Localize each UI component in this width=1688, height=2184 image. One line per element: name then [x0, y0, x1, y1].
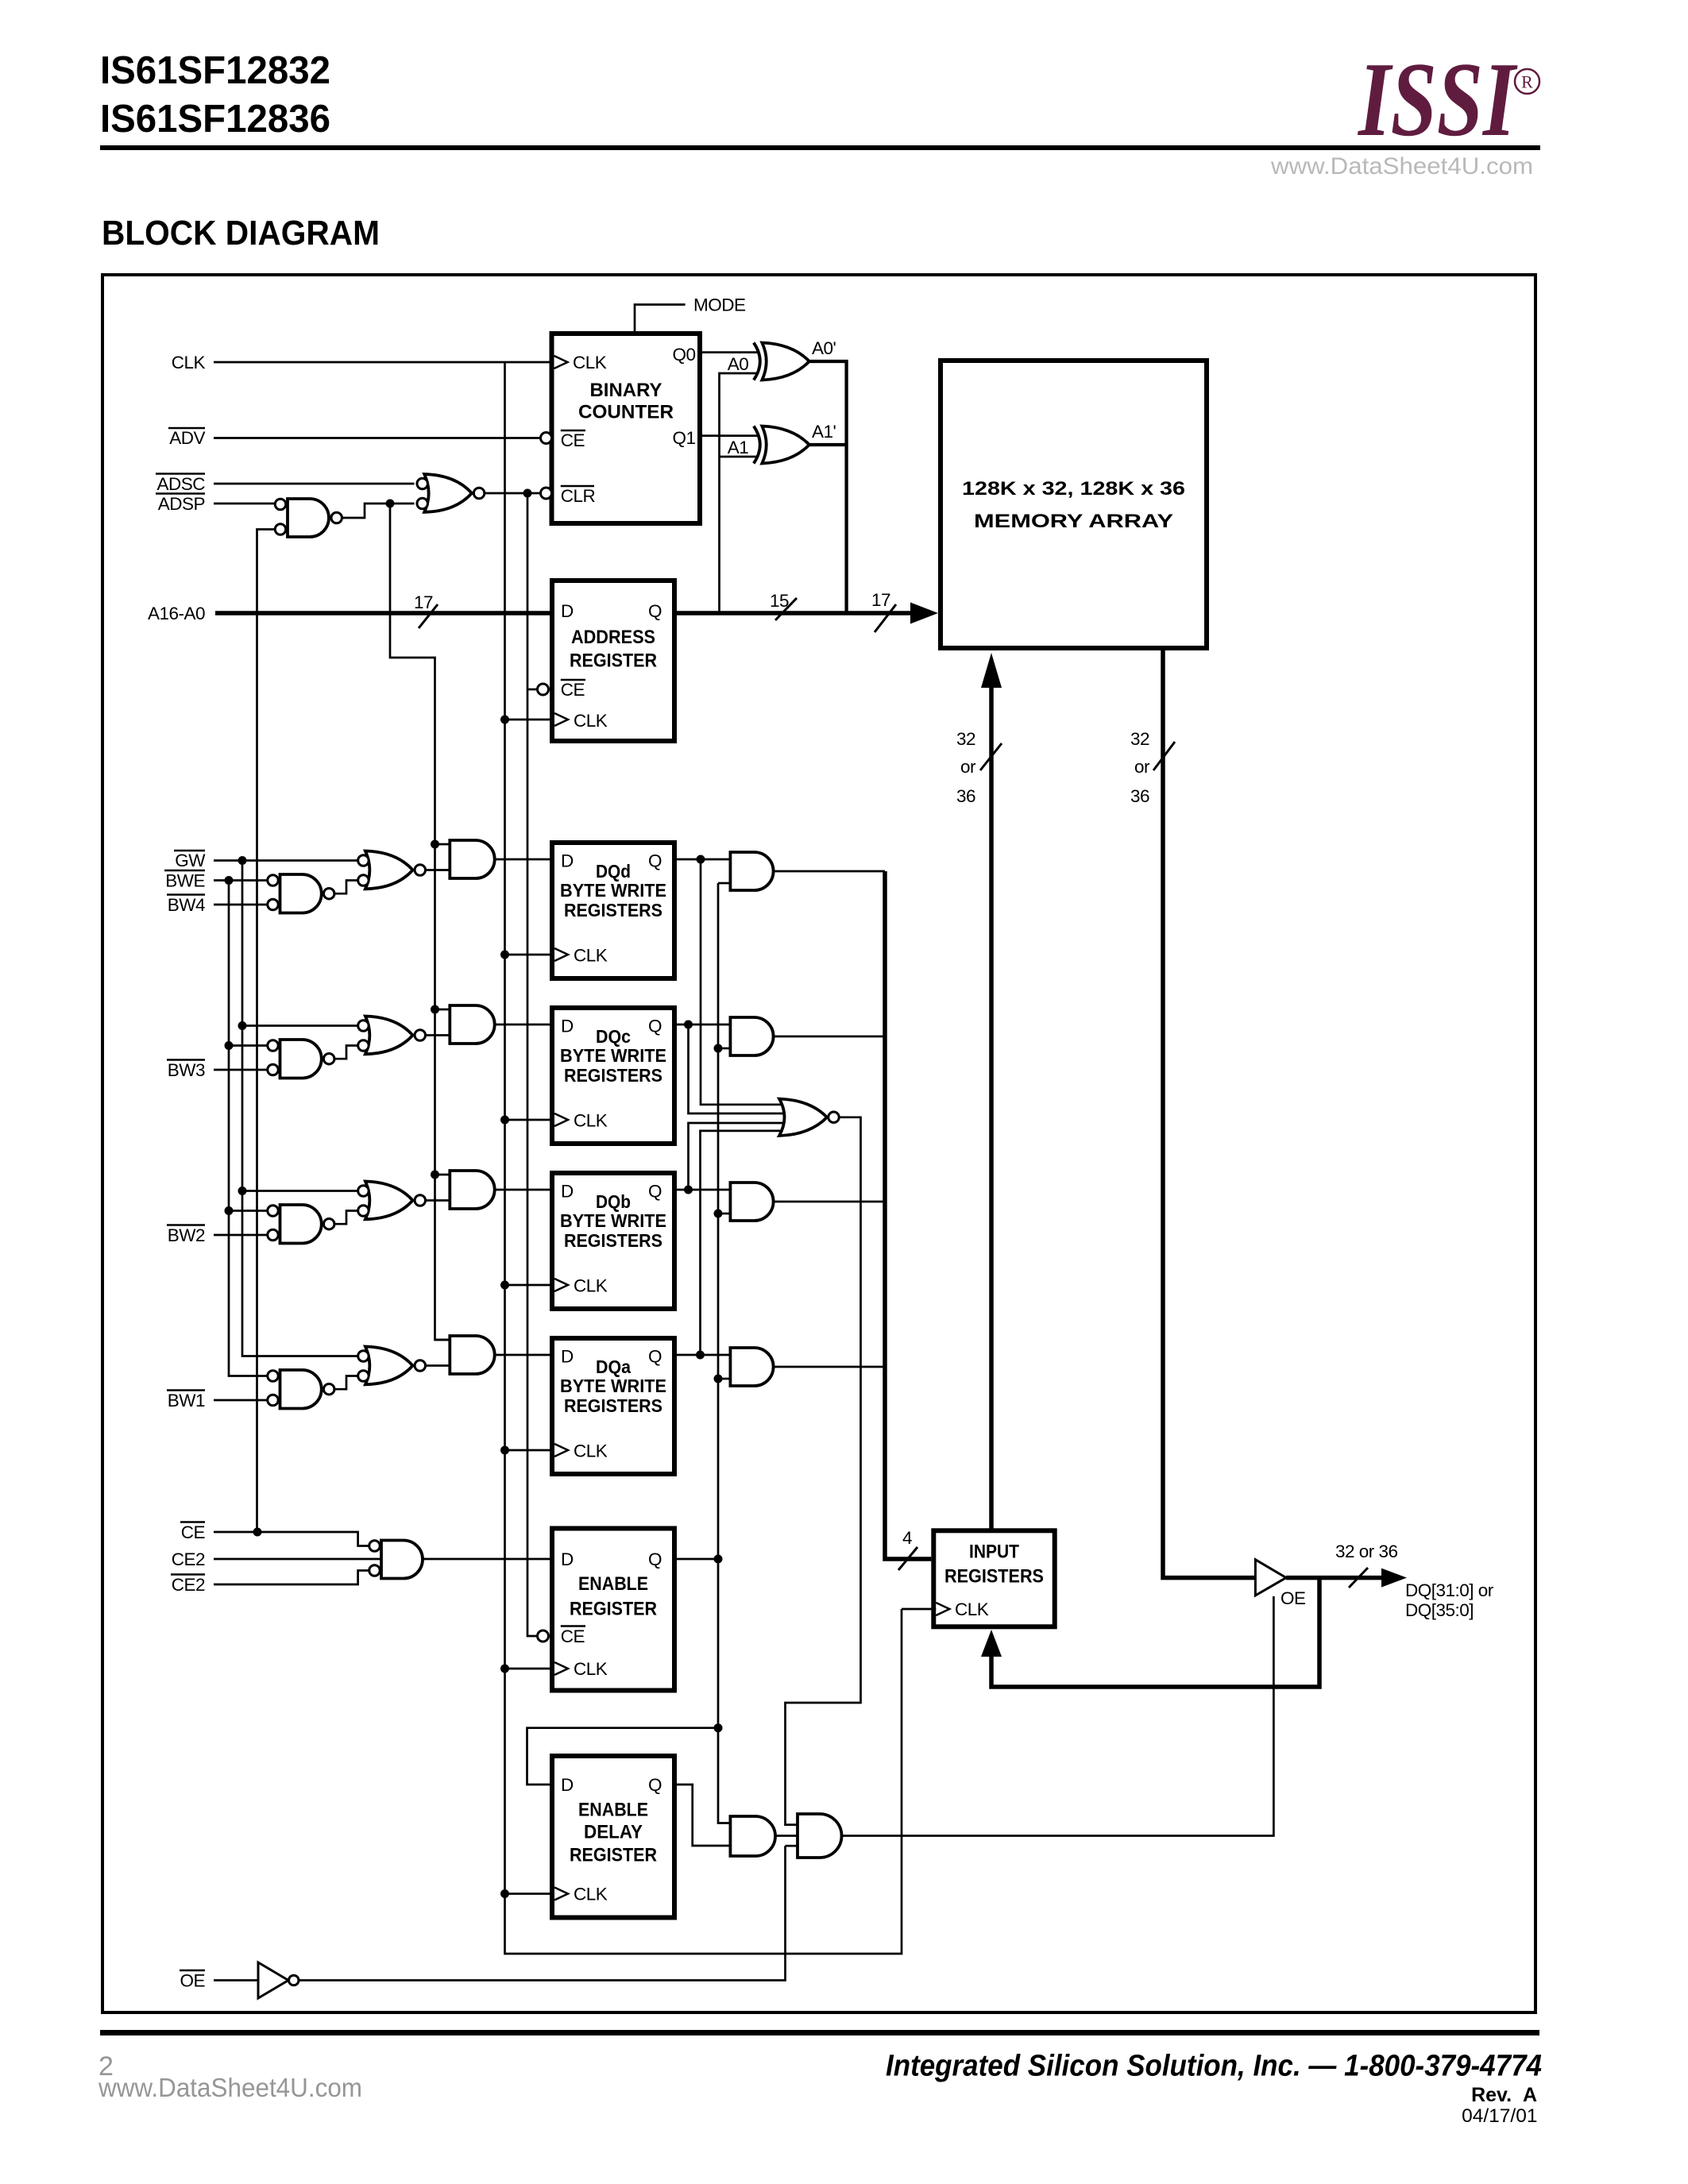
enable register box	[552, 1529, 674, 1691]
svg-text:Q: Q	[648, 1347, 662, 1367]
wire write-enable vertical (enable register Q)	[718, 883, 730, 1823]
input registers box	[933, 1530, 1054, 1626]
wire U6 output to enable register D	[423, 1558, 552, 1561]
wire ADSP to NAND gate	[214, 503, 275, 505]
junction CLK tap delay register	[500, 1889, 509, 1898]
nand gate (DQa byte write decode)	[268, 1370, 334, 1409]
junction DQd Q sense tap	[697, 855, 705, 864]
register box DQc BYTE WRITE REGISTERS	[552, 1008, 674, 1144]
wire GW	[214, 859, 358, 862]
wire NOR output to AND (DQc)	[426, 1034, 450, 1036]
and gate (DQd D input gating)	[450, 840, 494, 878]
wire CLK to DQa	[505, 1449, 555, 1452]
wire Q1 to XOR U4	[702, 434, 759, 437]
svg-text:or: or	[1134, 757, 1150, 777]
wire CE/CLR distribution vertical (to address & enable register CE)	[527, 493, 538, 1636]
svg-text:D: D	[561, 1549, 574, 1569]
svg-text:Q: Q	[648, 1775, 662, 1795]
wire delay register D feedback from enable Q	[527, 1728, 719, 1785]
wire BWE tap for DQc	[229, 1044, 275, 1047]
wire DQc Q output to output AND	[674, 1024, 730, 1026]
bus DQ writeback to input registers	[991, 1578, 1319, 1687]
arrowhead write data into memory	[981, 653, 1002, 688]
svg-text:CLK: CLK	[574, 1659, 608, 1679]
wire OE to inverter	[214, 1979, 258, 1981]
wire AND output to DQb register D	[495, 1189, 552, 1191]
svg-text:D: D	[561, 1017, 574, 1036]
output buffer (tri-state)	[1255, 1560, 1286, 1596]
enable register CLK pin	[554, 1662, 568, 1675]
svg-text:32 or 36: 32 or 36	[1335, 1542, 1398, 1561]
svg-text:CLK: CLK	[574, 1276, 608, 1296]
junction CLK tap enable register	[500, 1665, 509, 1673]
svg-text:CLK: CLK	[955, 1599, 989, 1619]
wire output AND to 4-bit write bus (DQb)	[774, 1201, 885, 1203]
svg-text:Q: Q	[648, 1549, 662, 1569]
node MODE input	[635, 305, 686, 332]
footer rule	[100, 2030, 1539, 2035]
svg-text:MEMORY ARRAY: MEMORY ARRAY	[974, 511, 1173, 532]
wire write-enable into output AND lower input (DQb)	[718, 1213, 730, 1215]
wire CLK to delay register	[505, 1893, 555, 1895]
wire CLK input to binary counter	[214, 361, 552, 364]
header rule	[100, 145, 1540, 150]
svg-text:GW: GW	[175, 851, 206, 870]
svg-text:CLK: CLK	[574, 711, 608, 731]
svg-text:IS61SF12832: IS61SF12832	[100, 49, 330, 92]
nor gate (DQc byte write combine)	[358, 1017, 426, 1055]
wire load-enable into AND upper input (DQd)	[435, 843, 450, 846]
svg-text:ADSP: ADSP	[158, 494, 205, 514]
wire OE inverted to U8	[299, 1846, 786, 1980]
wire load-enable into AND upper input (DQa)	[435, 1339, 450, 1341]
junction write-enable tap DQb	[714, 1210, 723, 1218]
svg-text:CLK: CLK	[172, 353, 206, 372]
address register CLK pin	[554, 713, 568, 726]
svg-text:D: D	[561, 1347, 574, 1367]
nor gate U5 (4-input write sense)	[779, 1099, 839, 1136]
svg-text:REGISTERS: REGISTERS	[564, 1230, 662, 1251]
bus 4-bit byte write enables to input registers	[885, 871, 931, 1559]
wire NAND output jog to NOR (DQa)	[334, 1376, 358, 1390]
wire BW1 to NAND	[214, 1399, 275, 1402]
svg-text:BYTE WRITE: BYTE WRITE	[560, 880, 666, 901]
and gate (DQb D input gating)	[450, 1171, 494, 1209]
svg-text:BW4: BW4	[168, 895, 205, 915]
svg-text:DQ[35:0]: DQ[35:0]	[1405, 1600, 1474, 1620]
junction CLK tap for address register	[500, 716, 509, 724]
registered trademark symbol	[1515, 69, 1539, 94]
svg-text:ADDRESS: ADDRESS	[571, 627, 655, 648]
junction write-enable tap DQa	[714, 1375, 723, 1383]
wire address register CE to distribution vertical	[527, 689, 538, 691]
svg-text:BW1: BW1	[168, 1391, 205, 1410]
svg-text:36: 36	[956, 786, 975, 806]
wire A1' output joining A0' vertical	[809, 443, 847, 446]
wire U8 output to output buffer enable	[842, 1596, 1274, 1836]
svg-text:D: D	[561, 851, 574, 871]
svg-text:OE: OE	[180, 1971, 205, 1991]
DQc CLK pin	[554, 1113, 568, 1126]
svg-text:BW2: BW2	[168, 1225, 205, 1245]
svg-text:A0: A0	[728, 354, 749, 374]
wire load-enable into AND upper input (DQb)	[435, 1174, 450, 1176]
svg-text:BLOCK DIAGRAM: BLOCK DIAGRAM	[102, 214, 380, 253]
wire ADV to counter CE	[214, 437, 541, 439]
wire DQb Q output to output AND	[674, 1189, 730, 1191]
nand gate (DQb byte write decode)	[268, 1205, 334, 1244]
svg-text:BYTE WRITE: BYTE WRITE	[560, 1376, 666, 1396]
binary counter box	[552, 334, 701, 523]
svg-text:4: 4	[902, 1528, 912, 1548]
bus write data input registers to memory array	[989, 685, 994, 1530]
address register box	[552, 581, 674, 741]
svg-text:or: or	[960, 757, 976, 777]
and gate U7 (enable & delay)	[730, 1816, 775, 1856]
nand gate (DQd byte write decode)	[268, 874, 334, 913]
wire U1 lower input from CE line	[257, 530, 276, 1533]
bus width slash 17 (memory side)	[875, 604, 896, 632]
svg-text:REGISTER: REGISTER	[570, 650, 657, 672]
and gate (DQb write data qualify)	[730, 1183, 773, 1221]
bus read data memory to output buffer	[1163, 648, 1255, 1578]
wire GW distribution vertical	[242, 861, 358, 1356]
nand U1 (ADSP/CE gating)	[275, 499, 342, 537]
junction CLK tap DQb	[500, 1281, 509, 1290]
wire write-enable into output AND lower input (DQa)	[718, 1378, 730, 1380]
memory array box	[941, 361, 1207, 648]
enable delay register CLK pin	[554, 1888, 568, 1900]
junction GW distribution	[238, 856, 247, 865]
and gate (DQa write data qualify)	[730, 1348, 773, 1386]
bus width slash 15	[775, 598, 797, 620]
junction ADSP-NAND output node	[386, 500, 395, 508]
wire DQc Q to NOR input 2	[689, 1024, 786, 1113]
wire BW3 to NAND	[214, 1069, 275, 1071]
svg-text:DQd: DQd	[596, 861, 631, 882]
diagram outer border frame	[102, 275, 1535, 2012]
bus width slash 17	[419, 604, 438, 628]
wire DQa Q output to output AND	[674, 1354, 730, 1356]
wire GW tap for DQc	[242, 1024, 358, 1027]
wire Q0 to XOR U3	[702, 351, 759, 353]
svg-text:CLK: CLK	[573, 353, 607, 372]
register box DQd BYTE WRITE REGISTERS	[552, 843, 674, 978]
wire load-enable vertical to byte write AND gates	[390, 504, 450, 1340]
junction CLK tap DQd	[500, 951, 509, 959]
wire DQd Q to NOR input 1	[701, 859, 785, 1105]
svg-text:128K x 32, 128K x 36: 128K x 32, 128K x 36	[962, 478, 1185, 500]
svg-text:Q1: Q1	[672, 428, 695, 448]
svg-text:BINARY: BINARY	[590, 380, 662, 401]
and gate (DQa D input gating)	[450, 1336, 494, 1374]
DQd CLK pin	[554, 948, 568, 961]
xor U4 (A1 toggle)	[754, 426, 809, 464]
wire CLK to DQb	[505, 1284, 555, 1287]
junction feedback tap on write-enable vertical	[714, 1723, 723, 1732]
ISSI logo	[1357, 41, 1518, 158]
wire NOR output to AND (DQd)	[426, 869, 450, 871]
svg-text:INPUT: INPUT	[969, 1542, 1019, 1563]
wire NOR output to AND (DQb)	[426, 1199, 450, 1202]
svg-text:ENABLE: ENABLE	[578, 1573, 648, 1595]
nor gate (DQa byte write combine)	[358, 1347, 426, 1385]
bus DQ output from buffer	[1286, 1576, 1381, 1580]
arrowhead DQ output	[1381, 1569, 1407, 1588]
svg-text:ISSI: ISSI	[1357, 41, 1518, 158]
svg-text:R: R	[1521, 72, 1533, 92]
register box DQa BYTE WRITE REGISTERS	[552, 1338, 674, 1474]
svg-text:32: 32	[1130, 729, 1149, 749]
binary counter CLR pin	[541, 488, 552, 499]
nor U2 (ADSC+ADSP)	[417, 474, 485, 512]
wire enable register Q to write-enable vertical	[674, 1558, 718, 1561]
svg-text:COUNTER: COUNTER	[578, 402, 674, 423]
svg-text:MODE: MODE	[693, 295, 746, 315]
svg-text:15: 15	[770, 591, 789, 611]
svg-text:A1': A1'	[812, 422, 836, 442]
wire BW2 to NAND	[214, 1234, 275, 1237]
wire AND output to DQd register D	[495, 859, 552, 861]
svg-text:REGISTERS: REGISTERS	[564, 1395, 662, 1416]
svg-text:BWE: BWE	[165, 871, 205, 891]
svg-text:ADSC: ADSC	[156, 474, 205, 494]
wire BW4 to NAND	[214, 904, 275, 906]
wire NOR output to AND (DQa)	[426, 1364, 450, 1367]
wire CE to enable AND	[214, 1532, 369, 1546]
svg-text:CE: CE	[561, 1626, 585, 1646]
nand gate (DQc byte write decode)	[268, 1040, 334, 1078]
svg-text:REGISTER: REGISTER	[570, 1845, 657, 1866]
wire CLK into input registers	[902, 1608, 936, 1611]
junction load-enable tap DQb	[431, 1171, 439, 1179]
arrowhead address bus into memory array	[910, 603, 938, 624]
junction DQa Q sense tap	[696, 1351, 705, 1360]
svg-text:ENABLE: ENABLE	[578, 1800, 648, 1821]
junction CLR line to CE/CLR distribution vertical	[523, 489, 532, 498]
svg-text:32: 32	[956, 729, 975, 749]
svg-text:www.DataSheet4U.com: www.DataSheet4U.com	[1270, 153, 1533, 179]
junction DQb Q sense tap	[684, 1186, 693, 1194]
wire delay register Q to AND-A	[674, 1785, 730, 1846]
and gate (DQc write data qualify)	[730, 1017, 773, 1055]
binary counter CLK pin	[554, 356, 568, 369]
wire write-enable into output AND lower input (DQd)	[718, 882, 730, 885]
and gate U6 (chip enable combine)	[369, 1541, 423, 1579]
wire U2 output to counter CLR	[485, 492, 541, 495]
wire CLK distribution vertical	[505, 362, 902, 1954]
wire U7 output to U8	[775, 1835, 798, 1837]
wire CLK to enable register	[505, 1668, 555, 1670]
binary counter CE pin	[541, 433, 552, 444]
svg-text:DELAY: DELAY	[584, 1822, 643, 1843]
svg-text:D: D	[561, 1182, 574, 1202]
arrowhead DQ into input registers	[981, 1630, 1002, 1657]
nor gate (DQb byte write combine)	[358, 1182, 426, 1220]
svg-text:D: D	[561, 601, 574, 621]
wire CLK to address register	[505, 719, 555, 721]
wire A0 tap from address bus	[720, 373, 757, 613]
wire BWE	[214, 879, 275, 882]
enable delay register box	[552, 1756, 674, 1918]
wire A0' output to address bus	[809, 361, 847, 613]
wire AND output to DQa register D	[495, 1354, 552, 1356]
wire CE2 low to enable AND	[214, 1571, 369, 1585]
svg-text:Q: Q	[648, 851, 662, 871]
wire GW tap for DQb	[242, 1190, 358, 1192]
wire CLK to DQc	[505, 1119, 555, 1121]
bus width slash 4	[898, 1547, 917, 1570]
svg-text:Rev. A: Rev. A	[1471, 2084, 1537, 2106]
svg-text:Q: Q	[648, 1017, 662, 1036]
bus width slash 32 or 36 (DQ)	[1349, 1568, 1368, 1588]
wire output AND to 4-bit write bus (DQc)	[774, 1036, 885, 1038]
junction DQc Q sense tap	[684, 1021, 693, 1029]
svg-text:DQc: DQc	[596, 1026, 631, 1047]
svg-text:CLR: CLR	[561, 486, 596, 506]
svg-text:REGISTERS: REGISTERS	[944, 1566, 1044, 1588]
junction load-enable tap DQc	[431, 1005, 439, 1014]
wire U5 output to enable logic	[786, 1117, 861, 1825]
wire NAND output jog to NOR (DQd)	[334, 881, 358, 894]
svg-text:Q: Q	[648, 601, 662, 621]
svg-text:REGISTERS: REGISTERS	[564, 900, 662, 920]
svg-text:Q0: Q0	[672, 345, 695, 365]
svg-text:REGISTER: REGISTER	[570, 1599, 657, 1620]
enable register CE pin	[538, 1630, 549, 1642]
svg-text:CE2: CE2	[172, 1575, 205, 1595]
wire DQa Q to NOR input 4	[701, 1131, 786, 1355]
nor gate (DQd byte write combine)	[358, 851, 426, 889]
wire CLK to DQd	[505, 954, 555, 956]
svg-text:BYTE WRITE: BYTE WRITE	[560, 1045, 666, 1066]
svg-text:Integrated Silicon Solution, I: Integrated Silicon Solution, Inc. — 1-80…	[886, 2050, 1542, 2083]
svg-text:OE: OE	[1280, 1588, 1306, 1608]
wire AND output to DQc register D	[495, 1024, 552, 1026]
svg-text:CLK: CLK	[574, 1885, 608, 1904]
svg-text:04/17/01: 04/17/01	[1462, 2105, 1537, 2127]
and gate (DQc D input gating)	[450, 1005, 494, 1044]
svg-text:CLK: CLK	[574, 946, 608, 966]
svg-text:17: 17	[414, 592, 433, 612]
and gate U8 (output enable combine)	[798, 1814, 842, 1858]
svg-text:A1: A1	[728, 438, 749, 457]
wire BWE tap for DQb	[229, 1210, 275, 1212]
svg-text:IS61SF12836: IS61SF12836	[100, 98, 330, 141]
bus A16-A0 into address register	[215, 611, 551, 615]
wire ADSC to NOR gate	[214, 483, 415, 485]
svg-text:DQb: DQb	[596, 1191, 631, 1212]
svg-text:CLK: CLK	[574, 1111, 608, 1131]
svg-text:CE: CE	[181, 1522, 206, 1542]
svg-text:D: D	[561, 1775, 574, 1795]
wire A1 tap from address bus	[720, 456, 757, 458]
input registers CLK pin	[936, 1603, 949, 1615]
wire U1 output jog to NOR U2	[342, 504, 415, 518]
junction CLK tap DQc	[500, 1116, 509, 1125]
junction enable Q node	[714, 1555, 723, 1564]
svg-text:BYTE WRITE: BYTE WRITE	[560, 1210, 666, 1231]
wire DQd Q output to output AND	[674, 859, 730, 861]
and gate (DQd write data qualify)	[730, 852, 773, 890]
svg-text:CE: CE	[561, 680, 585, 700]
wire write-enable into output AND lower input (DQc)	[718, 1048, 730, 1050]
svg-text:BW3: BW3	[168, 1060, 205, 1080]
wire output AND to 4-bit write bus (DQd)	[774, 870, 885, 873]
DQa CLK pin	[554, 1444, 568, 1457]
DQb CLK pin	[554, 1279, 568, 1291]
wire DQb Q to NOR input 3	[689, 1123, 786, 1190]
register box DQb BYTE WRITE REGISTERS	[552, 1173, 674, 1309]
wire CE2 to enable AND	[214, 1558, 381, 1561]
wire U8 lower input from OE buffer	[786, 1845, 798, 1847]
wire BWE distribution vertical	[229, 881, 275, 1376]
svg-text:CLK: CLK	[574, 1441, 608, 1461]
svg-text:CE2: CE2	[172, 1549, 205, 1569]
junction CLK tap DQa	[500, 1446, 509, 1455]
svg-text:REGISTERS: REGISTERS	[564, 1065, 662, 1086]
wire NAND output jog to NOR (DQb)	[334, 1211, 358, 1225]
xor U3 (A0 toggle)	[754, 343, 809, 380]
wire load-enable into AND upper input (DQc)	[435, 1009, 450, 1011]
wire NAND output jog to NOR (DQc)	[334, 1046, 358, 1059]
svg-text:A16-A0: A16-A0	[148, 604, 205, 623]
svg-text:17: 17	[871, 590, 890, 610]
junction CE to ADSP NAND vertical	[253, 1528, 262, 1537]
junction write-enable tap DQc	[714, 1044, 723, 1053]
address register CE pin	[538, 684, 549, 695]
inverter U9 (OE)	[258, 1962, 299, 1998]
svg-text:A0': A0'	[812, 338, 836, 358]
wire output AND to 4-bit write bus (DQa)	[774, 1366, 885, 1368]
svg-text:www.DataSheet4U.com: www.DataSheet4U.com	[98, 2073, 362, 2102]
svg-text:Q: Q	[648, 1182, 662, 1202]
svg-text:DQa: DQa	[596, 1356, 632, 1377]
svg-text:ADV: ADV	[169, 428, 205, 448]
junction load-enable tap DQd	[431, 840, 439, 849]
svg-text:CE: CE	[561, 430, 585, 450]
junction BWE distribution	[225, 876, 234, 885]
bus address register to memory array	[675, 611, 914, 615]
svg-text:36: 36	[1130, 786, 1149, 806]
svg-text:DQ[31:0] or: DQ[31:0] or	[1405, 1580, 1494, 1600]
